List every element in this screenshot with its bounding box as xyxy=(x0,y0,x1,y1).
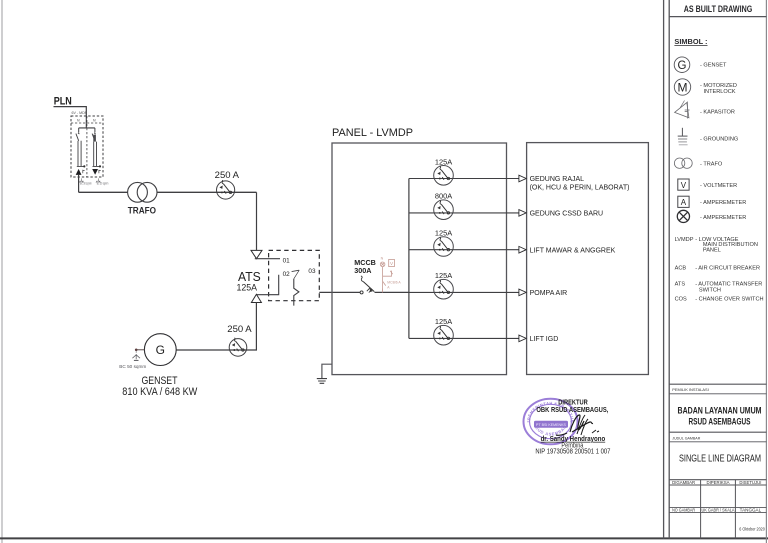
feeder 4 wire xyxy=(409,291,519,293)
border frame bottom xyxy=(0,537,768,539)
right branch switch blade xyxy=(92,133,96,141)
svg-text:810 KVA / 648 KW: 810 KVA / 648 KW xyxy=(122,386,198,398)
cubicle header dashed line xyxy=(71,122,103,124)
svg-text:- VOLTMETER: - VOLTMETER xyxy=(700,183,737,189)
legend meter crossed circle xyxy=(677,210,689,222)
feeder 2 wire xyxy=(409,212,519,214)
feeder 3 wire xyxy=(409,249,519,251)
panel ground symbol xyxy=(317,379,327,384)
svg-text:- AMPEREMETER: - AMPEREMETER xyxy=(700,215,746,221)
svg-text:125A: 125A xyxy=(435,157,452,166)
second header top rule xyxy=(669,506,766,508)
signature header rule xyxy=(669,484,766,486)
pemilik cell rule xyxy=(669,393,766,395)
left branch switch body twin lines xyxy=(77,141,84,167)
svg-text:PEMILIK INSTALASI: PEMILIK INSTALASI xyxy=(672,387,709,392)
svg-text:G: G xyxy=(156,343,165,357)
fuse (filled) xyxy=(93,135,96,142)
legend amperemeter box xyxy=(678,196,689,207)
MCCB blade arrowhead xyxy=(370,288,373,292)
svg-text:SINGLE LINE DIAGRAM: SINGLE LINE DIAGRAM xyxy=(679,454,761,465)
svg-text:125A: 125A xyxy=(435,317,452,326)
contact 02 tick xyxy=(292,270,300,271)
svg-text:A: A xyxy=(681,198,687,207)
genset earth dot xyxy=(135,349,138,352)
svg-text:- AIR CIRCUIT BREAKER: - AIR CIRCUIT BREAKER xyxy=(695,265,760,271)
svg-text:N: N xyxy=(381,256,384,260)
sidebar frame line outer xyxy=(663,0,665,539)
svg-text:PT BSI KEMENKS: PT BSI KEMENKS xyxy=(536,423,566,427)
ACB 250A PLN circle xyxy=(217,181,235,199)
svg-text:250 A: 250 A xyxy=(227,323,252,334)
svg-text:PANEL: PANEL xyxy=(703,247,721,253)
ATS output wire 03 to MCCB xyxy=(319,291,360,293)
svg-text:POMPA AIR: POMPA AIR xyxy=(530,290,568,297)
genset earth bar xyxy=(134,359,139,361)
svg-text:DIPERIKSA: DIPERIKSA xyxy=(707,480,730,485)
genset ACB 250A symbol xyxy=(232,338,244,351)
MCCB trip squiggle xyxy=(361,276,363,282)
feeder 3 arrow xyxy=(519,246,526,253)
svg-text:NO GAMBAR: NO GAMBAR xyxy=(672,507,696,512)
svg-text:SWITCH: SWITCH xyxy=(699,288,721,294)
svg-text:- GENSET: - GENSET xyxy=(700,63,727,69)
svg-text:LIFT IGD: LIFT IGD xyxy=(530,336,559,343)
border frame right xyxy=(765,0,767,543)
svg-text:DISETUJUI: DISETUJUI xyxy=(739,480,761,485)
svg-text:300A: 300A xyxy=(354,266,371,275)
ATS dashed box xyxy=(269,250,320,300)
svg-text:M: M xyxy=(77,119,80,123)
MCCB blade xyxy=(363,282,374,292)
legend genset circle xyxy=(674,57,690,73)
trafo primary circle xyxy=(128,182,148,202)
svg-text:BC 50 sqmm: BC 50 sqmm xyxy=(80,181,92,185)
MV-MDP cubicle dashed box xyxy=(71,116,103,177)
svg-text:6V - MDP: 6V - MDP xyxy=(72,111,88,115)
svg-text:RSUD ASEMBAGUS: RSUD ASEMBAGUS xyxy=(689,417,751,428)
svg-text:125A: 125A xyxy=(237,283,258,293)
svg-text:COS: COS xyxy=(675,296,687,302)
svg-text:PANEL - LVMDP: PANEL - LVMDP xyxy=(332,127,413,139)
wire down to ATS xyxy=(256,192,258,250)
svg-text:JUDUL GAMBAR: JUDUL GAMBAR xyxy=(672,435,700,440)
svg-text:250 A: 250 A xyxy=(215,169,240,180)
panel LVMDP box xyxy=(332,143,507,375)
svg-text:- GROUNDING: - GROUNDING xyxy=(700,137,738,143)
ATS genset contact 02 triangle xyxy=(251,294,261,302)
judul gambar rule xyxy=(669,431,766,433)
feeder 5 arrow xyxy=(519,335,526,342)
wire PLN to trafo xyxy=(79,191,128,193)
svg-text:PLN: PLN xyxy=(54,96,72,108)
svg-text:AS BUILT DRAWING: AS BUILT DRAWING xyxy=(684,4,753,14)
genset contact wire xyxy=(256,275,278,295)
right branch twin lines xyxy=(93,142,100,167)
sidebar frame line inner xyxy=(668,0,670,539)
svg-text:- AMPEREMETER: - AMPEREMETER xyxy=(700,200,746,206)
judul cell rule xyxy=(669,441,766,443)
COS blade with spring zigzag xyxy=(294,279,299,306)
left branch tick mark xyxy=(83,170,85,173)
svg-text:125A: 125A xyxy=(435,271,452,280)
left branch switch blade xyxy=(76,133,80,141)
feeder 1 wire xyxy=(409,178,519,180)
svg-text:01: 01 xyxy=(283,258,291,265)
genset circle xyxy=(144,334,176,366)
svg-text:SIMBOL :: SIMBOL : xyxy=(674,37,707,46)
svg-text:M: M xyxy=(93,119,96,123)
feeder 2 breaker circle xyxy=(434,200,454,220)
feeder 5 wire xyxy=(409,337,519,339)
feeder 5 breaker symbol xyxy=(437,326,449,339)
ACB 250A PLN symbol xyxy=(219,180,231,193)
genset earth fan xyxy=(132,355,140,359)
second header rule xyxy=(669,511,766,513)
feeder 5 breaker circle xyxy=(434,325,454,345)
wire MCCB to panel bus xyxy=(375,291,409,293)
feeder 4 breaker symbol xyxy=(437,280,449,293)
right branch stub xyxy=(94,128,96,133)
svg-text:ACB: ACB xyxy=(675,265,687,271)
svg-text:MCB/6 A: MCB/6 A xyxy=(387,281,401,285)
stamp ring text top xyxy=(530,405,571,422)
svg-text:03: 03 xyxy=(308,268,316,275)
svg-text:125A: 125A xyxy=(435,229,452,238)
svg-text:GEDUNG RAJAL: GEDUNG RAJAL xyxy=(530,176,585,183)
red metering riser xyxy=(380,259,394,292)
sidebar header rule xyxy=(669,16,766,18)
MCCB hinge circle xyxy=(360,291,363,294)
cubicle divider dashed line xyxy=(86,116,88,177)
svg-text:TANGGAL: TANGGAL xyxy=(740,507,762,512)
svg-text:GEDUNG CSSD BARU: GEDUNG CSSD BARU xyxy=(530,211,604,218)
table column line 1 xyxy=(700,480,702,539)
svg-text:V: V xyxy=(681,181,687,190)
svg-text:BC 50 sqmm: BC 50 sqmm xyxy=(119,364,146,369)
feeder 2 arrow xyxy=(519,210,526,217)
svg-text:- TRAFO: - TRAFO xyxy=(700,162,723,168)
stamp outer ellipse xyxy=(0,0,578,444)
contact 01 wire xyxy=(255,258,280,260)
svg-text:- KAPASITOR: - KAPASITOR xyxy=(700,109,735,115)
genset earth stub xyxy=(135,351,137,355)
trafo secondary circle xyxy=(137,182,157,202)
stamp inner ellipse xyxy=(530,404,572,438)
svg-text:NIP 19730508 200501 1 007: NIP 19730508 200501 1 007 xyxy=(535,447,610,456)
feeder 4 arrow xyxy=(519,289,526,296)
svg-text:800A: 800A xyxy=(435,192,452,201)
legend trafo circles xyxy=(674,158,684,168)
svg-text:BC 50 sqmm: BC 50 sqmm xyxy=(97,181,109,185)
feeder 1 breaker circle xyxy=(434,166,454,186)
feeder 4 breaker circle xyxy=(434,279,454,299)
genset earth wire xyxy=(136,349,144,351)
legend motorized circle xyxy=(674,79,690,95)
earth mark left below cubicle xyxy=(79,178,84,182)
svg-text:G: G xyxy=(678,60,687,72)
signature table top rule xyxy=(669,479,766,481)
svg-text:02: 02 xyxy=(283,271,291,278)
svg-text:6 Oktober 2020: 6 Oktober 2020 xyxy=(739,527,765,532)
legend kapasitor symbol xyxy=(675,103,689,118)
legend grounding symbol xyxy=(681,128,683,136)
svg-text:ATS: ATS xyxy=(675,282,686,288)
wire genset to ATS xyxy=(176,303,256,351)
right branch tick mark xyxy=(99,170,101,173)
legend voltmeter box xyxy=(678,179,689,190)
feeder 1 arrow xyxy=(519,175,526,182)
stamp ring text bottom xyxy=(534,422,568,436)
svg-text:(OK, HCU & PERIN, LABORAT): (OK, HCU & PERIN, LABORAT) xyxy=(530,184,630,191)
ATS input contact 01 triangle xyxy=(251,250,262,258)
border frame left xyxy=(1,0,3,543)
svg-text:LVMDP: LVMDP xyxy=(675,237,694,243)
right branch arrester arrow (solid down triangle) xyxy=(92,169,98,175)
signature scribble xyxy=(556,415,593,435)
svg-text:M: M xyxy=(678,81,688,95)
svg-text:DIGAMBAR: DIGAMBAR xyxy=(672,480,696,485)
feeder 2 breaker symbol xyxy=(437,201,449,214)
COS blade link xyxy=(294,270,299,279)
svg-text:OBK RSUD ASEMBAGUS,: OBK RSUD ASEMBAGUS, xyxy=(536,405,608,414)
stamp center band xyxy=(534,421,568,428)
left branch outgoing wire xyxy=(78,175,80,192)
svg-text:INTERLOCK: INTERLOCK xyxy=(704,89,736,95)
svg-text:LIFT MAWAR & ANGGREK: LIFT MAWAR & ANGGREK xyxy=(530,247,616,254)
incoming feed wire xyxy=(85,116,87,128)
svg-text:UK GABR / SKALA: UK GABR / SKALA xyxy=(702,507,735,512)
PLN underline wire xyxy=(54,107,87,116)
left branch stub xyxy=(78,128,80,133)
left branch CT arrow (solid up triangle) xyxy=(76,169,82,175)
wire trafo to ACB 250A xyxy=(157,191,257,193)
svg-text:- CHANGE OVER SWITCH: - CHANGE OVER SWITCH xyxy=(695,296,763,302)
feeder 1 breaker symbol xyxy=(437,166,449,179)
feeder destination box xyxy=(527,143,649,375)
panel distribution bus xyxy=(408,179,410,339)
svg-text:BADAN LAYANAN UMUM: BADAN LAYANAN UMUM xyxy=(678,406,762,417)
panel earth tap wire xyxy=(322,364,332,378)
genset ACB 250A circle xyxy=(229,339,247,357)
feeder 3 breaker circle xyxy=(434,237,454,257)
table column line 2 xyxy=(734,480,736,539)
svg-text:*: * xyxy=(527,421,529,427)
title block top rule xyxy=(669,383,766,385)
feeder 3 breaker symbol xyxy=(437,238,449,251)
right branch junction dot xyxy=(99,165,101,167)
MCCB hash ticks xyxy=(367,288,372,293)
svg-text:TRAFO: TRAFO xyxy=(128,205,156,216)
cubicle bus wire xyxy=(79,127,95,129)
left branch junction dot xyxy=(83,165,85,167)
earth mark right below cubicle xyxy=(96,178,101,182)
